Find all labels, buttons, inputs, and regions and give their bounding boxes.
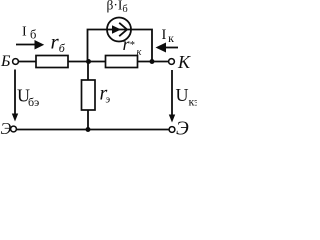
resistor r_э xyxy=(82,80,96,110)
terminal К circle xyxy=(169,59,175,65)
wire r_к* to К terminal xyxy=(138,61,169,63)
svg-text:Б: Б xyxy=(0,53,11,70)
wire r_э to bottom xyxy=(87,110,89,130)
arrow I_к line xyxy=(166,47,178,49)
terminal Б circle xyxy=(13,59,19,65)
junction node bottom xyxy=(86,127,91,132)
wire current-source branch xyxy=(88,30,108,62)
wire r_б to r_к* xyxy=(68,61,106,63)
wire bottom Э to Э xyxy=(17,129,170,131)
current source chevron xyxy=(119,23,127,36)
arrow I_б line xyxy=(16,44,36,46)
arrowhead I_к xyxy=(156,43,167,53)
svg-text:К: К xyxy=(177,52,191,72)
arrowhead U_бэ xyxy=(12,114,18,122)
wire Б terminal to r_б xyxy=(19,61,37,63)
svg-text:б: б xyxy=(30,28,36,42)
svg-text:*: * xyxy=(130,40,135,51)
current source U1 circle xyxy=(107,18,131,42)
resistor r_к* xyxy=(106,56,138,68)
svg-text:I: I xyxy=(22,25,27,40)
svg-text:rб: rб xyxy=(51,30,66,56)
svg-text:Э: Э xyxy=(1,119,12,136)
arrowhead U_кэ xyxy=(169,115,175,123)
terminal Э left circle xyxy=(11,126,17,132)
svg-text:β·Iб: β·Iб xyxy=(107,0,128,15)
arrow U_бэ line xyxy=(14,70,16,115)
junction node A xyxy=(86,59,91,64)
svg-text:Uбэ: Uбэ xyxy=(17,86,39,110)
svg-text:Uкэ: Uкэ xyxy=(176,85,198,109)
svg-text:к: к xyxy=(137,47,142,58)
svg-text:Э: Э xyxy=(176,119,189,137)
arrow U_кэ line xyxy=(171,70,173,116)
svg-text:Iк: Iк xyxy=(162,27,175,45)
resistor r_б xyxy=(36,56,68,68)
svg-text:э: э xyxy=(106,95,111,106)
current source arrow line xyxy=(107,29,131,31)
current source arrowhead xyxy=(112,25,121,34)
wire junction A to r_э xyxy=(87,62,89,81)
terminal Э right circle xyxy=(169,127,175,133)
junction node B xyxy=(150,59,155,64)
arrowhead I_б xyxy=(35,40,45,50)
